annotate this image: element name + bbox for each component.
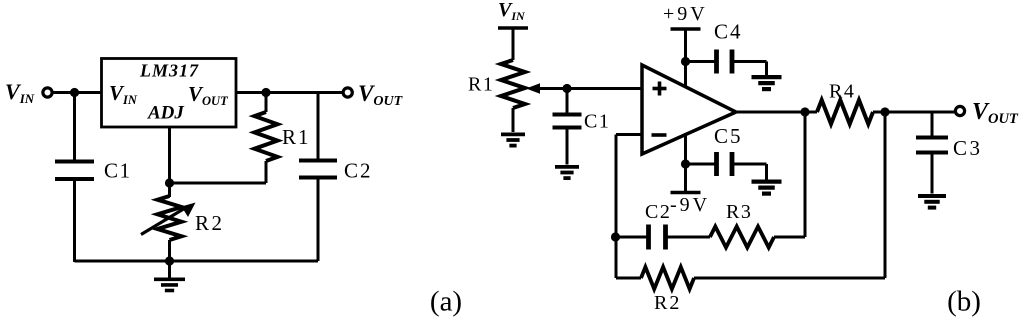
svg-text:LM317: LM317 [139, 61, 199, 81]
svg-text:R2: R2 [195, 211, 225, 235]
svg-text:C2: C2 [344, 159, 373, 183]
svg-text:(b): (b) [947, 286, 981, 318]
svg-text:ADJ: ADJ [147, 103, 184, 124]
svg-text:R4: R4 [829, 81, 855, 103]
svg-text:C1: C1 [584, 111, 610, 133]
svg-text:R1: R1 [468, 74, 494, 96]
svg-text:R2: R2 [654, 292, 681, 314]
svg-text:-9V: -9V [670, 194, 710, 216]
svg-text:C4: C4 [714, 20, 743, 44]
svg-text:C5: C5 [714, 124, 743, 148]
svg-text:(a): (a) [430, 286, 462, 318]
svg-text:C3: C3 [953, 136, 983, 160]
svg-text:R1: R1 [282, 125, 311, 149]
svg-text:C1: C1 [104, 159, 132, 183]
svg-text:R3: R3 [726, 201, 752, 223]
svg-text:+9V: +9V [663, 3, 708, 25]
svg-text:C2: C2 [645, 201, 671, 223]
